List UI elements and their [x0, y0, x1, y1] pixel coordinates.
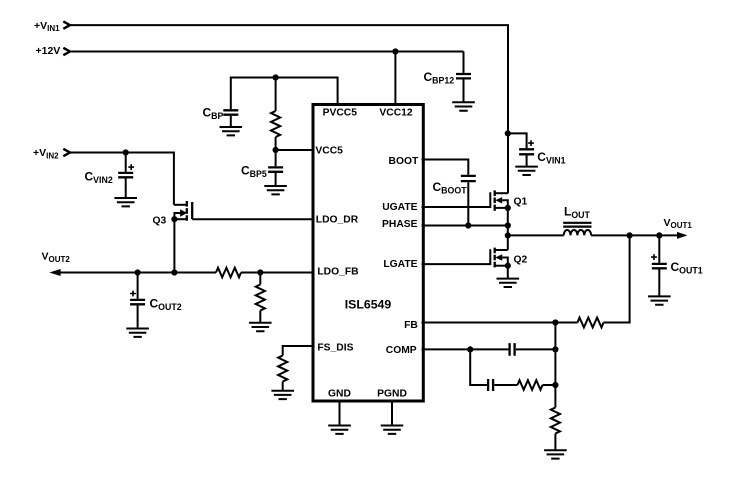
inductor LOUT coil: [564, 230, 591, 235]
transistor Q3 channel: [186, 201, 188, 221]
transistor Q1 drain stub: [495, 192, 508, 194]
capacitor CVIN1 plus sign: [528, 140, 534, 146]
svg-text:CBP12: CBP12: [424, 70, 455, 86]
node comp network lower junction: [552, 382, 558, 388]
wire R-FB divider to ground: [554, 434, 556, 450]
ground CBP5: [264, 186, 287, 194]
wire CVIN1 to ground: [526, 155, 528, 166]
node COMP junction: [467, 346, 473, 352]
svg-text:LDO_DR: LDO_DR: [316, 214, 359, 225]
transistor Q2 arrow stub: [501, 258, 508, 266]
ground R-LDO_FB divider: [249, 323, 272, 331]
IC U1 ISL6549 body: [313, 105, 423, 402]
svg-text:LOUT: LOUT: [564, 205, 591, 221]
capacitor CBP12: [456, 74, 471, 78]
wire VOUT1 arrow lead: [659, 234, 678, 236]
transistor Q1 channel: [494, 190, 496, 210]
node FB junction: [552, 319, 558, 325]
wire VCC12 pin: [394, 52, 396, 105]
wire +VIN2 rail to Q3: [71, 153, 174, 205]
svg-text:UGATE: UGATE: [382, 202, 417, 213]
ground R-FB divider: [544, 450, 567, 458]
transistor Q2 drain stub: [495, 249, 508, 251]
wire COUT1 top lead: [658, 235, 660, 262]
svg-text:VCC5: VCC5: [315, 146, 343, 157]
ground PGND: [381, 426, 404, 434]
wire FB: [422, 322, 578, 324]
resistor R-COMP lower: [518, 380, 543, 390]
svg-text:+VIN1: +VIN1: [34, 20, 60, 33]
wire PVCC5 rail: [231, 78, 338, 110]
wire COUT2 to ground: [137, 305, 139, 328]
svg-text:Q1: Q1: [514, 197, 528, 208]
wire GND pin: [339, 401, 341, 425]
ground CVIN2: [114, 198, 137, 206]
wire R-FS_DIS to ground: [282, 382, 284, 391]
capacitor CBP: [223, 110, 238, 114]
resistor R-FS_DIS: [278, 356, 287, 382]
wire LGATE to Q2 gate: [422, 249, 491, 264]
wire R-COMP to FB leg: [543, 384, 556, 386]
ground CBP: [220, 127, 243, 135]
ground FS_DIS: [271, 391, 294, 399]
svg-text:BOOT: BOOT: [389, 156, 419, 167]
svg-text:LGATE: LGATE: [383, 259, 417, 270]
transistor Q3 top stub: [174, 204, 187, 206]
wire CBP12 branch: [463, 52, 465, 73]
capacitor C-COMP upper: [510, 343, 515, 356]
wire PHASE: [422, 225, 508, 227]
node +12V/VCC12 junction: [392, 48, 398, 54]
transistor Q2 channel: [494, 248, 496, 268]
wire CBOOT to PHASE: [467, 182, 469, 225]
transistor Q2 arrowhead: [495, 254, 502, 260]
inductor LOUT core: [563, 223, 591, 227]
wire COMP node down: [470, 349, 487, 385]
wire COUT2 top lead: [137, 273, 139, 299]
svg-text:VOUT1: VOUT1: [664, 217, 693, 230]
svg-text:+12V: +12V: [36, 45, 61, 57]
wire LDO_DR: [192, 218, 311, 220]
transistor Q3 gate bar: [191, 202, 193, 219]
node +VIN1/CVIN1 junction: [505, 130, 511, 136]
resistor R-FB feedback: [578, 318, 604, 328]
ground Q2: [497, 279, 520, 287]
svg-text:CBP5: CBP5: [241, 163, 267, 179]
wire Q1 source to Q2 drain: [507, 208, 509, 250]
node Q3 source junction: [171, 216, 177, 222]
node VOUT1/FB-divider junction: [627, 232, 633, 238]
wire COMP: [422, 348, 509, 350]
wire CBP5 to ground: [275, 173, 277, 185]
svg-text:CVIN2: CVIN2: [85, 170, 113, 186]
node +VIN1 input chevron: [63, 21, 70, 28]
node PHASE wire junction: [505, 222, 511, 228]
ground GND: [328, 426, 351, 434]
wire BOOT to CBOOT: [422, 160, 469, 175]
node VOUT2/COUT2 junction: [135, 269, 141, 275]
wire C-COMP upper to FB node: [516, 348, 556, 350]
node PHASE/CBOOT junction: [465, 222, 471, 228]
ground CBP12: [452, 102, 475, 110]
svg-text:ISL6549: ISL6549: [345, 298, 392, 312]
transistor Q2 source stub: [495, 265, 508, 267]
node PHASE/LOUT junction: [505, 232, 511, 238]
wire PHASE to LOUT: [508, 234, 564, 236]
resistor R-PVCC5/VCC5: [271, 111, 280, 137]
wire LDO_FB: [241, 272, 312, 274]
svg-text:CBP: CBP: [203, 106, 224, 122]
svg-text:FB: FB: [404, 320, 418, 331]
node Q1 source junction: [505, 205, 511, 211]
wire Q2 source to ground: [507, 266, 509, 278]
node +12V input chevron: [63, 48, 70, 55]
capacitor CVIN1: [519, 149, 534, 154]
node VOUT1 output arrow: [677, 232, 688, 239]
wire CVIN2 to ground: [125, 178, 127, 197]
capacitor COUT2 plus sign: [130, 291, 136, 297]
capacitor CBOOT: [461, 176, 476, 181]
transistor Q1 arrowhead: [495, 197, 502, 203]
wire divider resistor top lead: [259, 273, 261, 285]
svg-text:+VIN2: +VIN2: [33, 147, 59, 160]
wire FB node down: [554, 323, 556, 386]
transistor Q3 source stub: [174, 218, 186, 220]
svg-text:VOUT2: VOUT2: [42, 251, 71, 264]
svg-text:COUT1: COUT1: [671, 260, 703, 276]
svg-text:Q3: Q3: [153, 215, 167, 226]
wire LOUT to VOUT1: [591, 234, 660, 236]
node FB/comp junction: [552, 346, 558, 352]
node VOUT1/COUT1 junction: [656, 232, 662, 238]
wire CBP5 top lead: [275, 150, 277, 166]
resistor R-LDO_FB divider: [256, 285, 265, 311]
wire C-COMP lower to R-COMP: [494, 384, 517, 386]
svg-text:PVCC5: PVCC5: [323, 108, 358, 119]
capacitor CVIN2: [118, 173, 133, 177]
node LDO_FB divider junction: [257, 269, 263, 275]
wire FS_DIS: [283, 346, 312, 356]
wire resistor R-PVCC5 top lead: [275, 78, 277, 112]
node VCC5/CBP5 junction: [273, 147, 279, 153]
svg-text:Q2: Q2: [514, 254, 528, 265]
svg-text:PGND: PGND: [377, 388, 407, 399]
capacitor C-COMP lower: [488, 379, 493, 391]
wire PGND pin: [391, 401, 393, 425]
capacitor CVIN2 plus sign: [128, 164, 134, 170]
wire Q3 drain to VOUT2: [173, 219, 175, 272]
wire UGATE to Q1 gate: [422, 192, 491, 207]
ground COUT2: [126, 329, 149, 337]
wire CVIN2 top lead: [125, 153, 127, 172]
wire CVIN1 branch: [508, 133, 527, 148]
svg-text:VCC12: VCC12: [379, 108, 412, 119]
node VOUT2/Q3 junction: [171, 269, 177, 275]
wire COUT1 to ground: [658, 269, 660, 295]
capacitor COUT1 plus sign: [651, 254, 657, 260]
node PVCC5 rail junction: [273, 74, 279, 80]
resistor R-LDO_FB series: [216, 268, 241, 278]
wire resistor R-PVCC5 bottom lead: [275, 137, 277, 150]
svg-text:CVIN1: CVIN1: [537, 150, 565, 166]
node VOUT2 output arrow: [49, 269, 60, 276]
resistor R-FB divider lower: [551, 408, 560, 434]
wire divider resistor to ground: [259, 311, 261, 323]
svg-text:LDO_FB: LDO_FB: [317, 267, 358, 278]
node +VIN2/CVIN2 junction: [123, 149, 129, 155]
ground CVIN1: [515, 167, 538, 175]
capacitor COUT1: [652, 264, 667, 268]
transistor Q3 arrow stub: [174, 213, 180, 219]
wire +12V rail: [71, 51, 464, 53]
capacitor COUT2: [130, 300, 145, 304]
wire CBP to ground: [230, 116, 232, 127]
node +VIN2 input chevron: [63, 149, 70, 156]
wire +VIN1 rail to Q1 drain: [71, 25, 509, 193]
svg-text:FS_DIS: FS_DIS: [317, 343, 353, 354]
capacitor CBP5: [268, 167, 283, 171]
wire VOUT2 rail: [60, 272, 216, 274]
svg-text:GND: GND: [328, 388, 351, 399]
transistor Q1 arrow stub: [501, 200, 508, 208]
transistor Q3 arrowhead: [180, 209, 187, 216]
wire CBP12 to ground: [463, 80, 465, 102]
transistor Q1 source stub: [495, 207, 508, 209]
svg-text:COUT2: COUT2: [150, 297, 182, 313]
node Q2 source junction: [505, 263, 511, 269]
svg-text:PHASE: PHASE: [382, 219, 418, 230]
wire VCC5 pin: [276, 149, 312, 151]
wire R-FB to VOUT1 node: [604, 235, 630, 322]
wire lower divider top lead: [554, 385, 556, 408]
ground COUT1: [648, 296, 671, 304]
svg-text:COMP: COMP: [386, 345, 417, 356]
